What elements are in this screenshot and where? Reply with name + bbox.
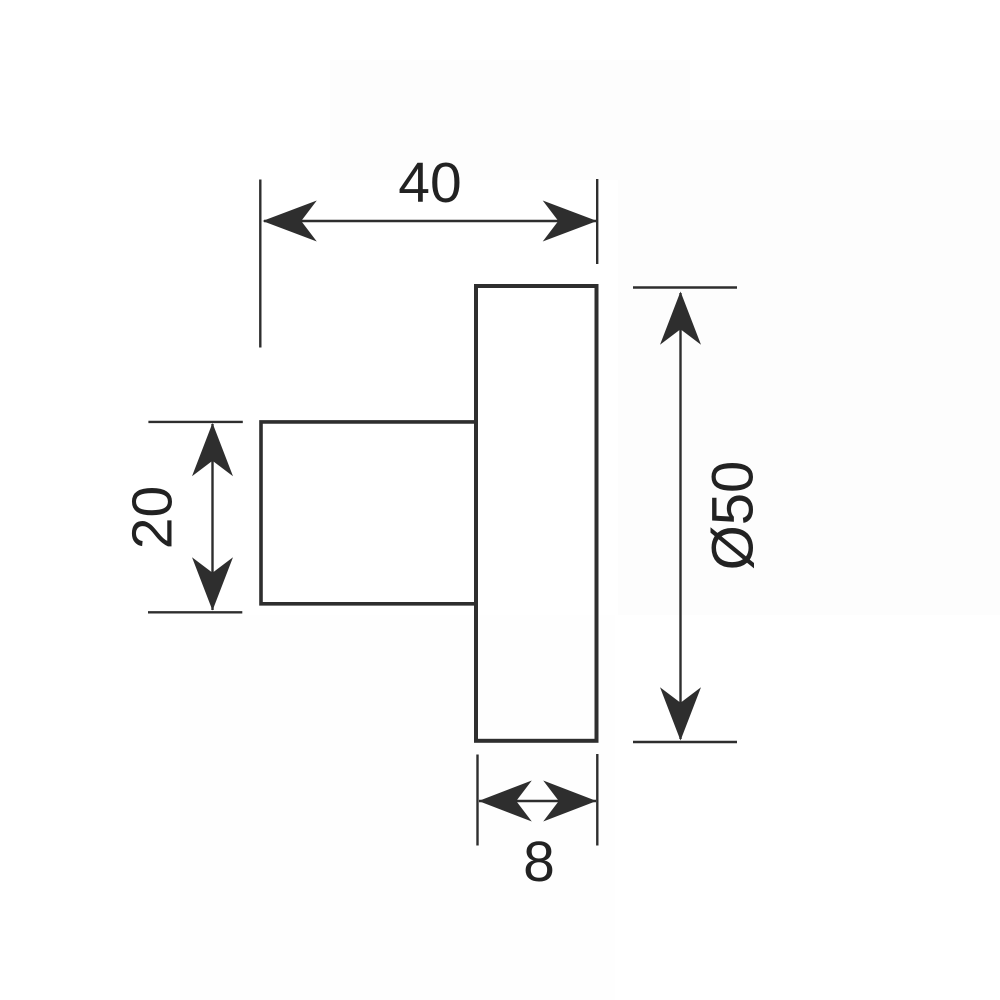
dimension line 8 (479, 800, 596, 802)
arrowhead 8 left (479, 781, 532, 822)
dimension line D50 (679, 293, 681, 739)
arrowhead 40 right (543, 201, 597, 242)
stem outline (three sides) (261, 422, 475, 604)
faint scan artifact patch right (618, 120, 1000, 615)
disc outline (side view rectangle) (476, 286, 597, 741)
arrowhead 8 right (543, 781, 596, 822)
arrowhead D50 down (660, 687, 701, 740)
extension line bottom of dim D50 (633, 741, 737, 743)
extension line left of dim 40 (259, 180, 261, 348)
extension line right of dim 40 (596, 179, 598, 264)
svg-text:8: 8 (523, 830, 555, 894)
arrowhead 20 down (192, 557, 233, 610)
svg-text:40: 40 (398, 151, 461, 215)
faint scan artifact patch top (330, 60, 690, 180)
svg-text:Ø50: Ø50 (701, 461, 766, 571)
faint scan artifact patch lower-left (180, 615, 615, 1000)
extension line bottom of dim 20 (148, 611, 242, 613)
svg-text:20: 20 (121, 486, 185, 549)
arrowhead D50 up (660, 292, 701, 345)
extension line top of dim 20 (148, 421, 242, 423)
arrowhead 40 left (263, 201, 317, 242)
dimension line 40 (264, 220, 596, 222)
arrowhead 20 up (192, 423, 233, 476)
extension line top of dim D50 (633, 286, 737, 288)
extension line left of dim 8 (476, 755, 478, 846)
dimension line 20 (211, 424, 213, 610)
extension line right of dim 8 (596, 754, 598, 846)
